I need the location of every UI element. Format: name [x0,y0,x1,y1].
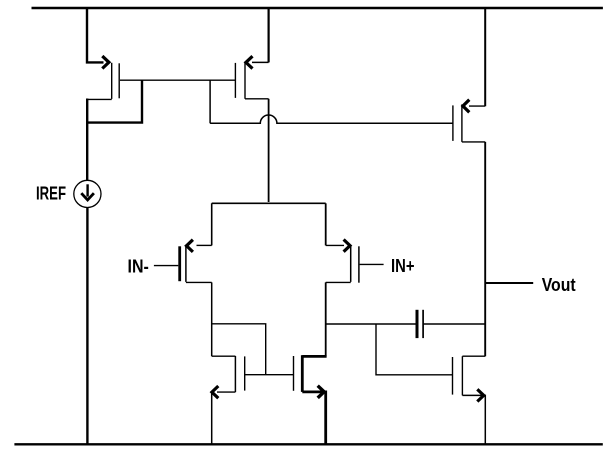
svg-text:Vout: Vout [542,275,576,295]
svg-text:IREF: IREF [36,183,66,203]
svg-text:IN-: IN- [128,256,149,276]
svg-text:IN+: IN+ [391,256,415,276]
